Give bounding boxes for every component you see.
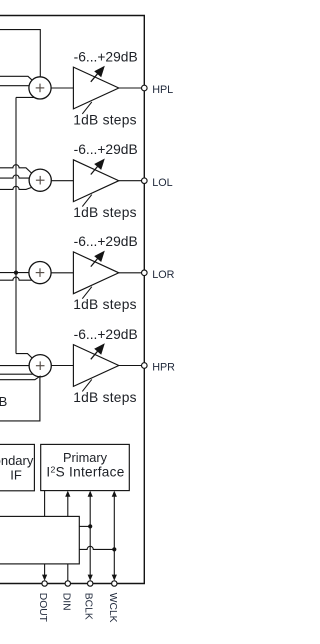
pin HPR terminal circle (142, 363, 148, 369)
svg-text:LOR: LOR (152, 269, 174, 281)
svg-text:WCLK: WCLK (107, 593, 118, 623)
op-amp U2 LOL driver (variable gain amplifier) (73, 160, 118, 202)
wire input B to summing node 4 (0, 373, 36, 375)
wire input C to summing node 2 (hops over bus) (0, 186, 33, 189)
svg-text:HPL: HPL (152, 84, 173, 96)
svg-text:1dB steps: 1dB steps (73, 112, 137, 127)
wire WCLK vertical (arrow up into Primary box, arrow down to pin) (112, 491, 117, 581)
wire summing node 2 to amp 2 input (49, 180, 74, 182)
wire input B to summing node 1 (0, 85, 30, 87)
wire input A to summing node 4 (0, 365, 30, 367)
svg-text:1dB steps: 1dB steps (73, 390, 137, 405)
wire input to summing node 1 from top routing (0, 30, 40, 79)
svg-text:B: B (0, 394, 7, 409)
wire input A to summing node 3 (joins bus at junction) (0, 272, 30, 274)
leader line from 1dB steps label to amp U1 (82, 102, 92, 114)
pin WCLK terminal circle (112, 581, 117, 586)
vertical bus from node 1 down to node 4 (15, 97, 17, 353)
wire DIN into Primary box (arrow up) (65, 491, 70, 517)
svg-text:LOL: LOL (152, 177, 172, 189)
svg-text:-6...+29dB: -6...+29dB (74, 49, 138, 64)
wire input A to summing node 2 (hops over bus) (0, 165, 33, 174)
wire summing node 1 to amp 1 input (49, 87, 74, 89)
gain adjust arrow on amp U3 (91, 251, 105, 267)
op-amp U1 HPL driver (variable gain amplifier) (73, 67, 118, 109)
wire summing node 1 to vertical bus (16, 96, 37, 98)
junction dot clock box to BCLK (88, 524, 92, 528)
wire DOUT from clock box bottom to pin (42, 564, 47, 581)
svg-text:-6...+29dB: -6...+29dB (74, 142, 138, 157)
clock/control box (clipped at left edge) (0, 516, 79, 564)
wire summing node 3 to amp 3 input (49, 272, 74, 274)
svg-text:I2S Interface: I2S Interface (46, 465, 124, 480)
junction dot clock box wire to WCLK (112, 547, 116, 551)
wire input A to summing node 1 (0, 76, 33, 81)
chip boundary border (0, 16, 144, 584)
leader line from 1dB steps label to amp U4 (82, 379, 92, 391)
svg-text:1dB steps: 1dB steps (73, 205, 137, 220)
svg-text:Primary: Primary (63, 450, 108, 465)
wire input B to summing node 2 (hops over bus) (0, 175, 30, 178)
summing node S3 (mixer) (29, 262, 51, 284)
leader line from 1dB steps label to amp U3 (82, 287, 92, 299)
gain adjust arrow on amp U1 (91, 66, 105, 82)
svg-text:DIN: DIN (60, 593, 71, 611)
gain adjust arrow on amp U4 (91, 343, 105, 359)
pin HPL terminal circle (142, 85, 148, 91)
svg-text:Secondary: Secondary (0, 453, 34, 468)
gain adjust arrow on amp U2 (91, 159, 105, 175)
wire DIN from clock box bottom to pin (67, 564, 69, 581)
wire amp 1 output to pin HPL (119, 87, 142, 89)
summing node S2 (mixer) (29, 169, 51, 191)
pin DIN terminal circle (65, 581, 70, 586)
wire clock box to WCLK (hops over BCLK) (79, 546, 114, 549)
wire DOUT from Primary box to clock box top (44, 491, 46, 517)
pin LOR terminal circle (142, 270, 148, 276)
svg-text:-6...+29dB: -6...+29dB (74, 234, 138, 249)
summing node S1 (mixer) (29, 77, 51, 99)
pin LOL terminal circle (142, 178, 148, 184)
svg-text:BCLK: BCLK (83, 593, 94, 620)
svg-text:IF: IF (10, 468, 22, 483)
wire amp 3 output to pin LOR (119, 272, 142, 274)
Secondary IF interface box (clipped at left edge) (0, 444, 34, 490)
pin DOUT terminal circle (42, 581, 47, 586)
junction dot bus to node 3 (14, 271, 18, 275)
op-amp U4 HPR driver (variable gain amplifier) (73, 345, 118, 387)
leader line from 1dB steps label to amp U2 (82, 195, 92, 207)
wire input B to summing node 3 (hops over bus) (0, 277, 34, 280)
svg-text:HPR: HPR (152, 362, 175, 374)
pin BCLK terminal circle (88, 581, 93, 586)
Primary I2S Interface box U5 (41, 444, 130, 490)
summing node S4 (mixer) (29, 355, 51, 377)
svg-text:DOUT: DOUT (37, 593, 48, 623)
wire amp 4 output to pin HPR (119, 365, 142, 367)
wire clock box to BCLK junction (79, 525, 90, 527)
wire bus to summing node 4 (16, 354, 33, 359)
wire BCLK vertical (arrow up into Primary box, arrow down to pin) (88, 491, 93, 581)
op-amp U3 LOR driver (variable gain amplifier) (73, 252, 118, 294)
wire amp 2 output to pin LOL (119, 180, 142, 182)
svg-text:1dB steps: 1dB steps (73, 297, 137, 312)
gain block box (clipped at left edge), connects below node 4 (0, 376, 40, 421)
svg-text:-6...+29dB: -6...+29dB (74, 327, 138, 342)
wire summing node 4 to amp 4 input (49, 365, 74, 367)
